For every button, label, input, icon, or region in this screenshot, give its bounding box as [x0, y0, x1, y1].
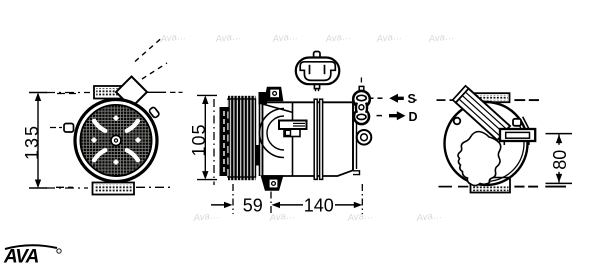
- top lug: [259, 92, 268, 104]
- line from diamond corner: [147, 91, 166, 93]
- bottom lug: [262, 176, 283, 190]
- band rings: [314, 99, 317, 179]
- bottom bracket: [471, 178, 511, 193]
- svg-text:140: 140: [304, 196, 334, 216]
- svg-text:80: 80: [550, 150, 570, 170]
- swoosh SE: [127, 150, 138, 160]
- bolt square right: [513, 119, 521, 126]
- manifold: [353, 91, 370, 108]
- mid housing line: [292, 102, 294, 176]
- pulley outer circle: [75, 100, 157, 182]
- swoosh NE: [127, 121, 138, 131]
- diag line above plate: [523, 117, 529, 129]
- pulley ribs: [228, 96, 256, 99]
- swoosh NW: [94, 121, 105, 131]
- svg-text:S: S: [408, 92, 416, 106]
- dimension 105: [197, 95, 217, 179]
- S port dashes and arrow: [370, 97, 374, 99]
- centerline rows: [57, 93, 76, 95]
- hub: [111, 136, 121, 146]
- top bracket: [94, 86, 133, 99]
- extension dashes bottom: [46, 187, 88, 189]
- rear face: [352, 102, 354, 170]
- bottom bracket: [93, 183, 135, 195]
- dimension 135: [29, 93, 47, 189]
- manifold top nub: [359, 86, 364, 90]
- dashed leader lines: [135, 39, 161, 62]
- belt line dash-dot: [213, 99, 215, 185]
- top bracket: [471, 93, 510, 102]
- dimension 80: [546, 133, 573, 135]
- svg-text:135: 135: [22, 124, 42, 160]
- svg-text:59: 59: [243, 196, 263, 216]
- centerline top: [414, 99, 416, 101]
- extension dashes top: [46, 92, 90, 94]
- pulley hub band: [220, 107, 229, 176]
- diamond dot E: [135, 137, 141, 143]
- diamond dot W: [91, 137, 97, 143]
- pulley face stipple: [80, 105, 151, 176]
- centerline bottom: [439, 186, 453, 188]
- diamond plate: [116, 77, 147, 108]
- label plate: [284, 129, 300, 137]
- right nub: [149, 107, 160, 119]
- front slant line: [263, 104, 294, 113]
- diamond dot N: [113, 115, 119, 121]
- connector C1: [314, 52, 320, 59]
- main circle: [445, 102, 528, 185]
- AVA logo: [3, 245, 61, 265]
- front face lines: [259, 103, 261, 176]
- body outline: [263, 102, 354, 176]
- dim 140: [272, 202, 281, 208]
- swoosh SW: [94, 150, 105, 160]
- dim 59: [211, 204, 229, 206]
- svg-text:D: D: [409, 110, 418, 124]
- casting blob: [458, 132, 501, 186]
- ear circle: [357, 130, 372, 145]
- svg-text:105: 105: [189, 123, 209, 156]
- bolt circle left: [454, 118, 461, 125]
- diagonal band: [456, 89, 510, 141]
- band end cap: [453, 86, 469, 103]
- extension dash-dots bottom: [232, 184, 234, 214]
- label plate right: [500, 129, 535, 141]
- boss arcs: [260, 109, 285, 158]
- diamond dot S: [113, 159, 119, 165]
- left tab: [64, 124, 74, 133]
- svg-text:AVA: AVA: [3, 247, 39, 265]
- D port dash and arrow: [377, 115, 383, 117]
